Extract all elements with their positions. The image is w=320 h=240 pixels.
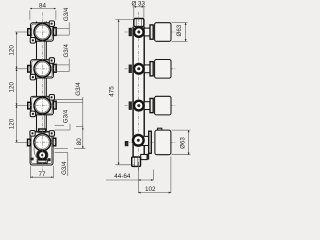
svg-text:G3/4: G3/4: [62, 109, 69, 123]
svg-text:Ø63: Ø63: [176, 24, 183, 36]
svg-text:120: 120: [8, 81, 15, 92]
svg-text:120: 120: [8, 118, 15, 129]
svg-text:Ø63: Ø63: [180, 137, 187, 149]
svg-text:G3/4: G3/4: [61, 161, 68, 175]
svg-text:G3/4: G3/4: [63, 7, 70, 21]
svg-text:120: 120: [8, 45, 15, 56]
svg-text:475: 475: [109, 86, 116, 97]
svg-text:77: 77: [38, 171, 46, 178]
svg-text:80: 80: [76, 138, 83, 146]
svg-text:G3/4: G3/4: [75, 82, 82, 96]
svg-text:G3/4: G3/4: [63, 44, 70, 58]
svg-text:44-64: 44-64: [114, 173, 131, 180]
svg-text:102: 102: [145, 186, 156, 193]
